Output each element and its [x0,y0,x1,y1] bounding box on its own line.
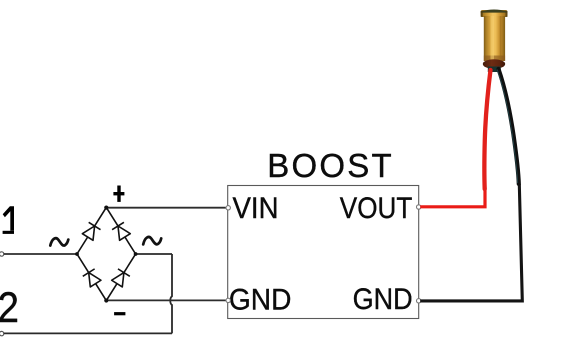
node left junction dot [75,252,79,256]
terminal T1 [0,252,4,256]
wire T2 horizontal [4,332,172,334]
laser module body [484,16,505,61]
pin GND-left circle [226,298,230,302]
pin label VOUT [340,192,413,225]
pin label GND right [353,283,413,316]
terminal 1 label [3,206,14,234]
diode D3 bottom-left [83,269,102,287]
laser module wire roots [488,67,501,73]
black wire GND horizontal [420,184,522,301]
node right junction dot [134,252,138,256]
plus polarity mark [113,186,124,202]
pin label VIN [233,192,279,225]
AC tilde right [143,237,161,244]
pin GND-right circle [417,299,421,303]
diode D4 bottom-right [111,269,130,287]
wire vertical with hop over GND wire [170,254,172,333]
svg-text:GND: GND [353,283,413,316]
wire right node to corner [136,253,172,255]
svg-text:GND: GND [229,283,292,316]
pin VOUT circle [417,205,421,209]
laser module base [483,59,505,69]
svg-text:VOUT: VOUT [340,192,413,225]
node bottom junction dot [104,298,108,302]
node top junction dot [104,206,108,210]
diode D1 top-left [82,222,101,240]
label BOOST [267,147,392,184]
wire bottom node to GND [106,299,225,301]
IC box BOOST [228,186,419,319]
svg-text:VIN: VIN [233,192,279,225]
diode D2 top-right [112,222,131,240]
laser module rim [481,10,508,17]
pin label GND left [229,283,292,316]
terminal 2 label [0,285,19,332]
minus polarity mark [114,312,125,315]
wire T1 to bridge left node [4,253,77,255]
bridge rectifier frame [77,207,136,300]
pin VIN circle [226,206,230,210]
red wire VOUT horizontal [420,188,485,207]
wire top node to VIN [106,207,225,209]
svg-text:BOOST: BOOST [267,147,392,184]
red lead wire [484,70,490,189]
AC tilde left [50,238,68,245]
terminal T2 [0,331,4,335]
black lead wire [497,69,519,184]
svg-text:2: 2 [0,285,19,332]
